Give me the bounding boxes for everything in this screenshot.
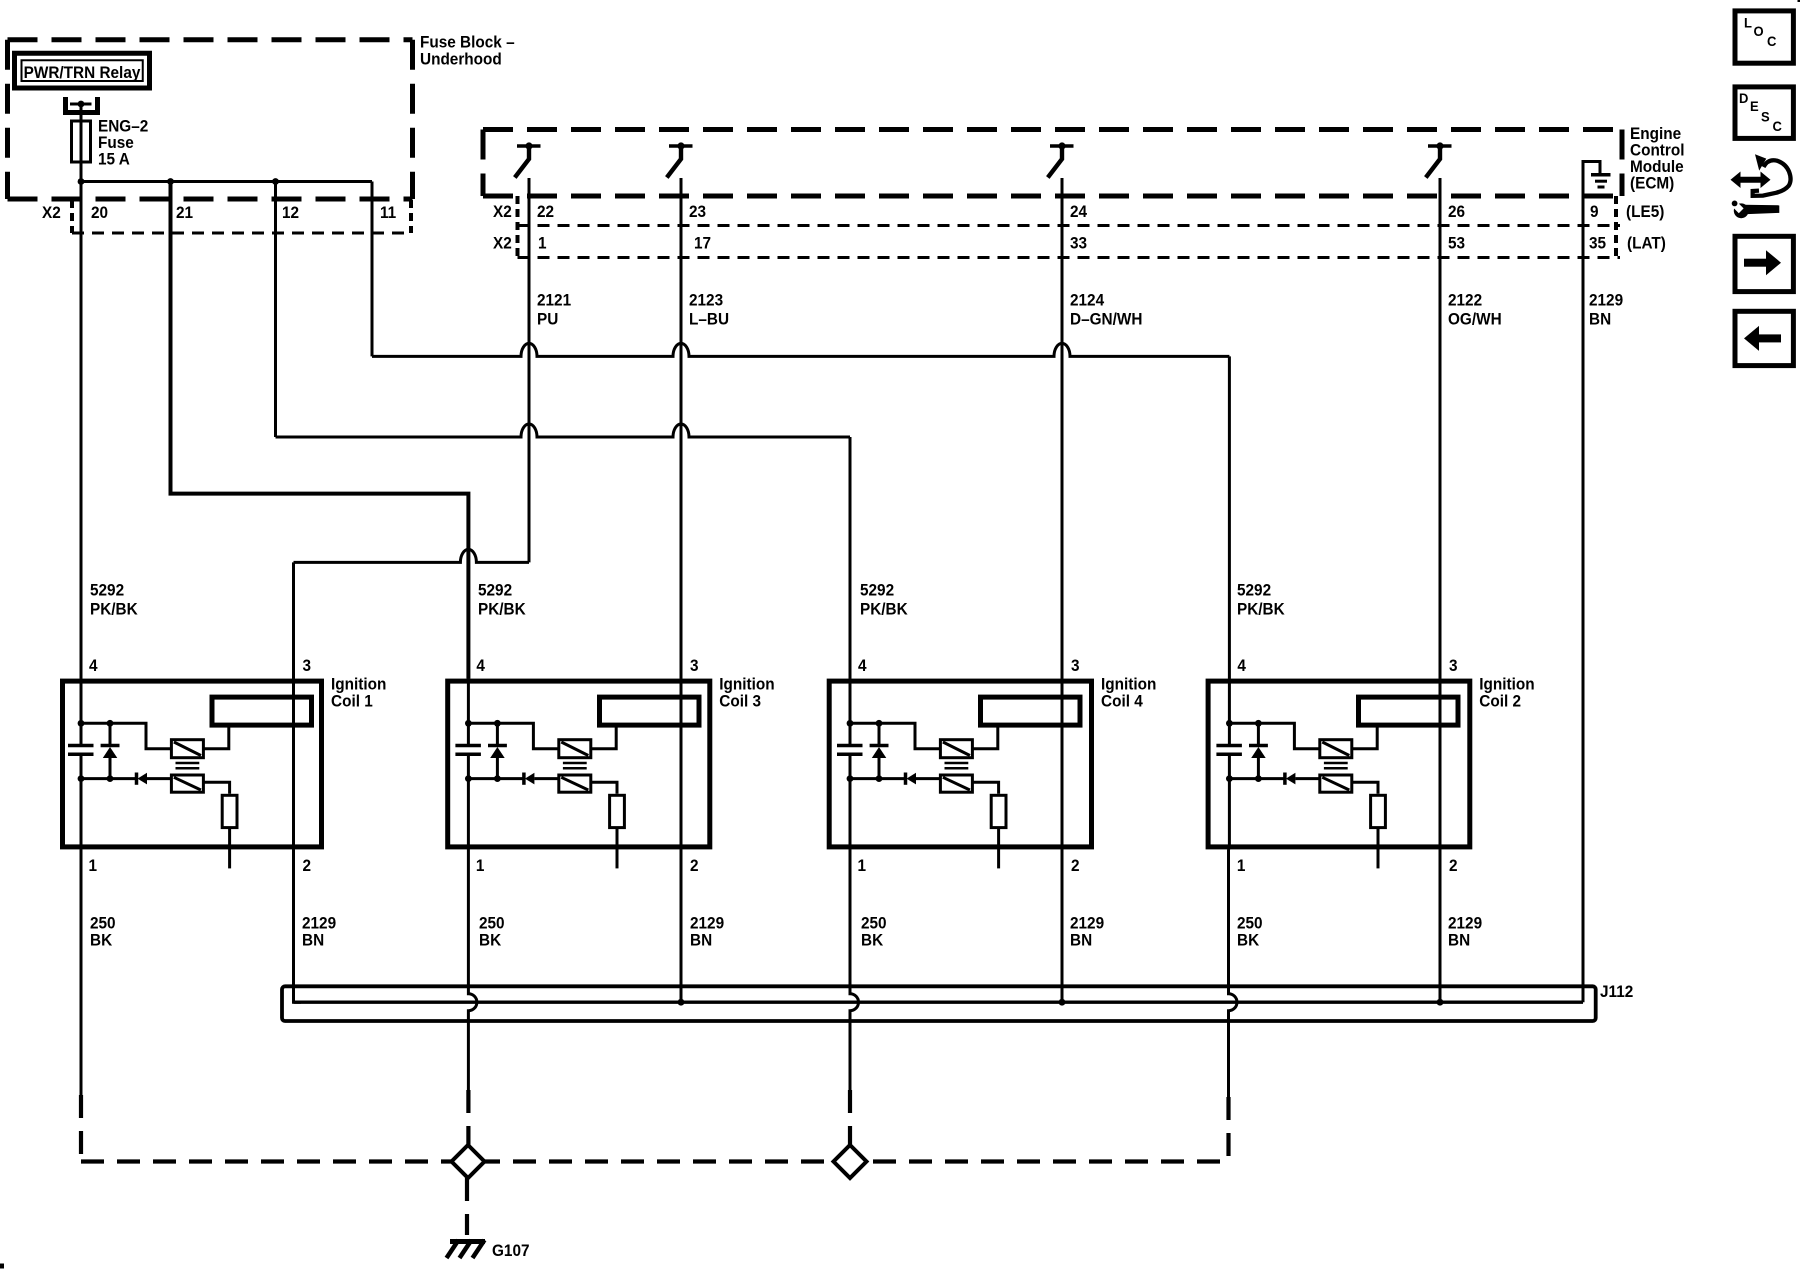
svg-text:11: 11 (380, 205, 396, 223)
svg-text:PK/BK: PK/BK (860, 601, 908, 619)
svg-text:X2: X2 (493, 235, 512, 253)
coil2 capacitor C (1216, 746, 1242, 755)
svg-text:1: 1 (89, 858, 98, 876)
wire label 2129 BN coil4 (1070, 915, 1104, 950)
coil1 coil internal left rail (80, 679, 83, 850)
fuse label (98, 118, 148, 169)
ground distribution dashed wire (81, 1159, 1229, 1163)
coil4 capacitor C (837, 746, 863, 755)
fuse block connector labels (42, 205, 396, 223)
wire label 250 BK coil4 (861, 915, 887, 950)
coil1 coil internal top wire (81, 723, 171, 748)
coil1 ignition coil 1 box (63, 681, 322, 847)
svg-text:ENG–2: ENG–2 (98, 118, 148, 136)
icon forward arrow box (1735, 236, 1793, 291)
coil3 driver module primary (crossed box) (559, 740, 591, 758)
svg-text:2: 2 (1449, 858, 1458, 876)
ground G107 symbol (447, 1240, 486, 1258)
coil1 wire to resistor (203, 782, 229, 794)
coil3 coil internal top wire (468, 723, 558, 748)
wire 2124 ECM pin24 to coil4 pin3 (1061, 178, 1064, 679)
svg-text:5292: 5292 (860, 582, 894, 600)
coil2 node top-cap (1226, 720, 1233, 727)
icon LOC box (1735, 11, 1793, 63)
svg-text:4: 4 (89, 658, 98, 676)
coil1 wire primary to secondary winding (203, 727, 228, 748)
coil3 capacitor C (455, 746, 481, 755)
svg-text:4: 4 (858, 658, 867, 676)
svg-text:(LE5): (LE5) (1626, 204, 1664, 222)
coil4 coil internal top wire (850, 723, 940, 748)
svg-text:23: 23 (689, 204, 706, 222)
svg-text:C: C (1773, 119, 1783, 135)
coil2 resistor R (1371, 795, 1386, 827)
svg-text:D: D (1739, 91, 1749, 107)
coil1 coil name label (331, 676, 386, 711)
svg-text:26: 26 (1448, 204, 1465, 222)
svg-text:Coil 1: Coil 1 (331, 693, 373, 711)
ECM coil-1 driver switch (515, 142, 541, 177)
wire coil2 pin1 250 BK (1229, 849, 1238, 1161)
svg-text:33: 33 (1070, 235, 1087, 253)
coil3 node low-zener (494, 775, 501, 782)
svg-text:4: 4 (476, 658, 485, 676)
wire coil4 pin2 2129 BN (1059, 849, 1066, 1005)
wire label 5292 PK/BK coil2 (1237, 582, 1285, 619)
svg-text:21: 21 (176, 205, 193, 223)
splice J112 label (1600, 984, 1633, 1002)
coil2 secondary winding (1359, 697, 1459, 725)
svg-text:3: 3 (690, 658, 699, 676)
coil3 wire primary to secondary winding (591, 727, 616, 748)
coil4 wire to resistor (972, 782, 998, 794)
svg-text:2: 2 (303, 858, 312, 876)
relay K1 PWR/TRN Relay box (15, 53, 150, 88)
svg-text:3: 3 (1449, 658, 1458, 676)
svg-text:BN: BN (690, 932, 712, 950)
coil3 transformer core (563, 763, 587, 768)
coil2 coil pin labels (1237, 658, 1458, 876)
svg-text:X2: X2 (42, 205, 61, 223)
svg-text:BK: BK (479, 932, 502, 950)
wire label 2129 BN coil3 (690, 915, 724, 950)
svg-text:(LAT): (LAT) (1627, 235, 1666, 253)
wire fuse to bus node (80, 162, 83, 182)
wire 2129 ECM ground to splice (1582, 178, 1585, 1002)
svg-text:4: 4 (1237, 658, 1246, 676)
ECM label (1630, 126, 1685, 193)
icon wrench and arrows (1729, 154, 1791, 218)
svg-text:2129: 2129 (1070, 915, 1104, 933)
svg-text:L: L (1744, 15, 1752, 31)
coil2 resistor tail stub (1377, 828, 1380, 869)
coil3 coil pin3-pin2 through wire (680, 679, 683, 850)
svg-text:20: 20 (91, 205, 108, 223)
wire 2122 ECM pin26 to coil2 pin3 (1439, 178, 1442, 679)
wire label 5292 PK/BK coil4 (860, 582, 908, 619)
coil3 node top-cap (465, 720, 472, 727)
coil4 node top-cap (847, 720, 854, 727)
ECM coil-4 driver switch (1048, 142, 1074, 177)
coil3 node top-zener (494, 720, 501, 727)
coil4 driver module primary (crossed box) (940, 740, 972, 758)
svg-text:3: 3 (303, 658, 312, 676)
svg-text:2122: 2122 (1448, 292, 1482, 310)
node pin21 tap (167, 178, 174, 185)
coil1 node low-cap (78, 775, 85, 782)
svg-text:BK: BK (861, 932, 884, 950)
svg-text:Ignition: Ignition (719, 676, 774, 694)
coil4 coil name label (1101, 676, 1156, 711)
coil2 wire primary to secondary winding (1352, 727, 1377, 748)
relay contact terminal (66, 97, 98, 113)
splice bus J112 inner wire (294, 1001, 1584, 1004)
svg-text:250: 250 (1237, 915, 1263, 933)
svg-text:24: 24 (1070, 204, 1087, 222)
coil1 resistor tail stub (228, 828, 231, 869)
svg-text:Underhood: Underhood (420, 51, 502, 69)
coil4 node low-zener (876, 775, 883, 782)
coil3 zener diode Z (488, 723, 507, 778)
coil1 node low-zener (107, 775, 114, 782)
wire coil1 pin1 250 BK (80, 849, 83, 1161)
coil3 coil internal left rail (467, 679, 470, 850)
coil2 node low-zener (1255, 775, 1262, 782)
wire coil3 pin2 2129 BN (678, 849, 685, 1005)
svg-text:53: 53 (1448, 235, 1465, 253)
wire 2123 ECM pin23 to coil3 pin3 (680, 178, 683, 679)
coil2 node low-cap (1226, 775, 1233, 782)
svg-text:9: 9 (1590, 204, 1599, 222)
fuse block label (420, 34, 515, 68)
svg-text:1: 1 (858, 858, 867, 876)
coil3 ignition coil 3 box (448, 681, 710, 847)
coil1 coil internal lower wire (81, 777, 135, 780)
coil4 ignition coil 4 box (829, 681, 1091, 847)
coil4 resistor tail stub (997, 828, 1000, 869)
coil3 resistor tail stub (616, 828, 619, 869)
wire label 2121 PU (537, 292, 571, 329)
wire diamond to G107 (465, 1178, 469, 1235)
coil2 coil internal top wire (1229, 723, 1319, 748)
svg-text:2: 2 (1071, 858, 1080, 876)
wire label 2129 BN coil2 (1448, 915, 1482, 950)
wire label 5292 PK/BK coil3 (478, 582, 526, 619)
svg-text:2129: 2129 (302, 915, 336, 933)
coil2 coil name label (1479, 676, 1534, 711)
coil2 node top-zener (1255, 720, 1262, 727)
fuse block feed bus wire (81, 180, 372, 183)
coil2 coil internal lower wire (1229, 777, 1283, 780)
coil1 secondary winding (212, 697, 312, 725)
coil4 coil internal left rail (849, 679, 852, 850)
svg-text:PK/BK: PK/BK (478, 601, 526, 619)
coil1 diode D (137, 773, 172, 785)
coil1 resistor R (222, 795, 237, 827)
ECM connector rows (518, 196, 1621, 258)
svg-text:BN: BN (302, 932, 324, 950)
svg-text:22: 22 (537, 204, 554, 222)
svg-text:250: 250 (479, 915, 505, 933)
svg-text:BK: BK (1237, 932, 1260, 950)
svg-text:PK/BK: PK/BK (90, 601, 138, 619)
svg-text:BK: BK (90, 932, 113, 950)
svg-text:BN: BN (1589, 311, 1611, 329)
svg-text:2124: 2124 (1070, 292, 1104, 310)
svg-text:Coil 2: Coil 2 (1479, 693, 1521, 711)
coil1 coil pin labels (89, 658, 312, 876)
svg-text:Ignition: Ignition (1479, 676, 1534, 694)
coil1 node top-zener (107, 720, 114, 727)
svg-text:3: 3 (1071, 658, 1080, 676)
ECM coil-3 driver switch (667, 142, 693, 177)
coil1 node top-cap (78, 720, 85, 727)
coil3 wire to resistor (591, 782, 617, 794)
fuse block - underhood dashed box (8, 40, 413, 199)
svg-text:Engine: Engine (1630, 126, 1681, 144)
svg-text:5292: 5292 (90, 582, 124, 600)
svg-text:35: 35 (1589, 235, 1606, 253)
wire label 5292 PK/BK coil1 (90, 582, 138, 619)
wire coil2 pin2 2129 BN (1437, 849, 1444, 1005)
coil2 wire to resistor (1352, 782, 1378, 794)
wire 2121 ECM pin22 to coil1 pin3 (294, 178, 530, 679)
coil2 ignition coil 2 box (1208, 681, 1470, 847)
coil2 driver module secondary (crossed box) (1320, 775, 1352, 792)
splice diamond right (834, 1145, 867, 1178)
coil2 zener diode Z (1249, 723, 1268, 778)
ECM connector row1 labels (LE5) (493, 204, 1664, 222)
coil3 resistor R (610, 795, 625, 827)
coil1 capacitor C (68, 746, 94, 755)
svg-text:1: 1 (538, 235, 547, 253)
coil1 coil pin3-pin2 through wire (292, 679, 295, 850)
wire label 2123 L-BU (689, 292, 729, 329)
wire label 250 BK coil1 (90, 915, 116, 950)
svg-text:X2: X2 (493, 204, 512, 222)
wire pin20 to coil1 pin4 (80, 182, 83, 679)
coil4 wire primary to secondary winding (972, 727, 997, 748)
coil4 coil internal lower wire (850, 777, 904, 780)
node fuse output (78, 178, 85, 185)
corner artifact top right (1798, 0, 1800, 2)
svg-text:(ECM): (ECM) (1630, 175, 1674, 193)
wire label 2122 OG/WH (1448, 292, 1502, 329)
coil3 node low-cap (465, 775, 472, 782)
wire pin21 to coil3 pin4 (171, 182, 469, 679)
icon DESC box (1735, 87, 1793, 138)
coil2 coil internal left rail (1228, 679, 1231, 850)
wire label 2124 D-GN/WH (1070, 292, 1142, 329)
svg-text:1: 1 (1237, 858, 1246, 876)
svg-text:2129: 2129 (1448, 915, 1482, 933)
svg-text:2129: 2129 (690, 915, 724, 933)
svg-text:S: S (1761, 109, 1770, 125)
svg-text:5292: 5292 (478, 582, 512, 600)
ECM connector row2 labels (LAT) (493, 235, 1666, 253)
coil3 driver module secondary (crossed box) (559, 775, 591, 792)
svg-text:12: 12 (282, 205, 299, 223)
coil4 transformer core (945, 763, 969, 768)
svg-text:G107: G107 (492, 1243, 530, 1261)
coil1 zener diode Z (101, 723, 120, 778)
svg-text:Fuse: Fuse (98, 135, 134, 153)
wire coil3 pin1 250 BK (468, 849, 477, 1145)
coil2 driver module primary (crossed box) (1320, 740, 1352, 758)
svg-text:OG/WH: OG/WH (1448, 311, 1502, 329)
svg-text:250: 250 (90, 915, 116, 933)
coil2 transformer core (1324, 763, 1348, 768)
svg-text:1: 1 (476, 858, 485, 876)
svg-text:O: O (1754, 24, 1764, 40)
wire label 2129 BN coil1 (302, 915, 336, 950)
coil2 coil pin3-pin2 through wire (1439, 679, 1442, 850)
coil4 resistor R (991, 795, 1006, 827)
svg-text:BN: BN (1448, 932, 1470, 950)
icon back arrow box (1735, 311, 1793, 365)
svg-text:PWR/TRN Relay: PWR/TRN Relay (24, 65, 141, 83)
ECM coil-2 driver switch (1426, 142, 1452, 177)
coil4 diode D (906, 773, 941, 785)
coil4 coil pin labels (858, 658, 1080, 876)
svg-text:J112: J112 (1600, 984, 1633, 1002)
svg-text:E: E (1750, 99, 1759, 115)
coil4 zener diode Z (870, 723, 889, 778)
splice bus J112 outline (282, 986, 1596, 1021)
svg-text:2129: 2129 (1589, 292, 1623, 310)
coil3 diode D (524, 773, 559, 785)
coil3 secondary winding (600, 697, 700, 725)
coil4 node top-zener (876, 720, 883, 727)
svg-text:PU: PU (537, 311, 558, 329)
ECM internal ground symbol (1583, 162, 1611, 188)
coil3 coil pin labels (476, 658, 699, 876)
wire coil4 pin1 250 BK (850, 849, 859, 1145)
node pin12 tap (272, 178, 279, 185)
svg-text:5292: 5292 (1237, 582, 1271, 600)
svg-text:D–GN/WH: D–GN/WH (1070, 311, 1142, 329)
svg-text:17: 17 (694, 235, 711, 253)
svg-text:Coil 4: Coil 4 (1101, 693, 1143, 711)
wire pin12 to coil4 pin4 (276, 182, 851, 679)
svg-text:L–BU: L–BU (689, 311, 729, 329)
fuse F1 ENG-2 15A (72, 121, 91, 162)
coil3 coil internal lower wire (468, 777, 522, 780)
coil1 transformer core (176, 763, 200, 768)
svg-text:2123: 2123 (689, 292, 723, 310)
coil4 coil pin3-pin2 through wire (1061, 679, 1064, 850)
svg-text:Module: Module (1630, 159, 1684, 177)
splice diamond left (452, 1145, 485, 1178)
coil1 driver module secondary (crossed box) (171, 775, 203, 792)
svg-text:Control: Control (1630, 142, 1685, 160)
coil4 secondary winding (981, 697, 1081, 725)
fuse block connector row X2 (72, 200, 411, 233)
coil2 diode D (1285, 773, 1320, 785)
coil4 driver module secondary (crossed box) (940, 775, 972, 792)
svg-text:2: 2 (690, 858, 699, 876)
wire label 250 BK coil3 (479, 915, 505, 950)
edge artifact left (0, 1264, 4, 1269)
coil3 coil name label (719, 676, 774, 711)
coil1 driver module primary (crossed box) (171, 740, 203, 758)
ECM dashed box (483, 130, 1622, 197)
wire relay to fuse (80, 104, 83, 121)
wire label 250 BK coil2 (1237, 915, 1263, 950)
svg-text:C: C (1767, 34, 1777, 50)
svg-text:Fuse Block –: Fuse Block – (420, 34, 515, 52)
svg-text:BN: BN (1070, 932, 1092, 950)
wire coil1 pin2 2129 BN (294, 849, 302, 1002)
ground G107 label (492, 1243, 530, 1261)
svg-text:Coil 3: Coil 3 (719, 693, 761, 711)
svg-text:2121: 2121 (537, 292, 571, 310)
svg-text:Ignition: Ignition (331, 676, 386, 694)
svg-text:Ignition: Ignition (1101, 676, 1156, 694)
svg-text:PK/BK: PK/BK (1237, 601, 1285, 619)
wire label 2129 BN (1589, 292, 1623, 329)
wire pin11 to coil2 pin4 (372, 182, 1229, 679)
svg-text:15 A: 15 A (98, 151, 130, 169)
svg-text:250: 250 (861, 915, 887, 933)
coil4 node low-cap (847, 775, 854, 782)
